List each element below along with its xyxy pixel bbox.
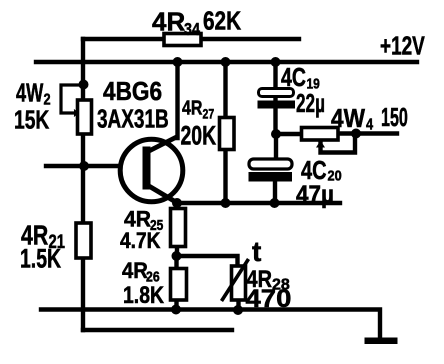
potentiometer W2 wiper bracket	[61, 85, 84, 117]
svg-text:1.5K: 1.5K	[20, 243, 61, 273]
svg-text:150: 150	[381, 102, 408, 132]
svg-text:62K: 62K	[203, 6, 241, 35]
svg-text:+12V: +12V	[380, 31, 426, 61]
thermistor R28 body	[232, 266, 246, 300]
resistor R25 4.7K	[171, 209, 186, 247]
junction dot R25-R26	[172, 251, 182, 261]
wire top R34 net	[83, 37, 299, 41]
junction dot C19-C20-W4	[271, 129, 281, 139]
svg-text:22µ: 22µ	[296, 88, 325, 118]
wire R25 column	[175, 203, 179, 256]
potentiometer W4 body 150	[302, 128, 339, 141]
svg-text:1.8K: 1.8K	[123, 281, 164, 308]
label R28 thermistor	[246, 236, 292, 313]
label C20	[296, 155, 342, 209]
potentiometer W4 wiper arrow	[316, 141, 325, 148]
junction dot R26 bottom	[171, 305, 181, 315]
junction dot base	[79, 161, 89, 171]
resistor R34 62K	[164, 34, 201, 46]
junction dot R28 bottom	[233, 305, 243, 315]
label W2	[14, 78, 51, 134]
wire ground rail	[41, 310, 380, 339]
label R27	[181, 97, 217, 150]
wire emitter rail	[177, 201, 340, 205]
svg-text:4: 4	[366, 116, 373, 134]
resistor R21 1.5K	[76, 223, 91, 258]
svg-text:4R: 4R	[124, 206, 151, 232]
wire C20 column	[275, 134, 276, 203]
svg-text:34: 34	[184, 20, 200, 40]
svg-text:4W: 4W	[331, 105, 365, 134]
svg-text:15K: 15K	[14, 105, 50, 135]
wire bottom left elbow	[83, 328, 232, 332]
junction dot rail-C19	[271, 57, 281, 67]
svg-text:4W: 4W	[16, 78, 44, 107]
svg-text:47µ: 47µ	[296, 181, 334, 209]
resistor R26 1.8K	[171, 269, 187, 301]
wire left column vertical	[81, 39, 85, 330]
junction dot emitter-C20	[270, 198, 280, 208]
svg-text:3AX31B: 3AX31B	[97, 104, 169, 134]
wire R26 column	[174, 256, 178, 309]
wire +12V rail	[36, 60, 417, 64]
label R25	[120, 206, 164, 253]
capacitor C19 22u top plate	[259, 89, 294, 97]
label R26	[122, 259, 164, 308]
label R34 value	[152, 6, 241, 39]
svg-text:4R: 4R	[122, 259, 148, 283]
svg-text:4.7K: 4.7K	[120, 229, 161, 254]
svg-text:20K: 20K	[181, 120, 217, 150]
wire base	[46, 164, 120, 168]
wire C19 column	[273, 62, 277, 134]
svg-text:4BG6: 4BG6	[103, 78, 162, 107]
wire collector riser	[175, 62, 179, 138]
wire R27 column	[223, 62, 227, 203]
svg-text:4R: 4R	[182, 97, 202, 119]
junction dot rail-riser	[173, 57, 183, 67]
svg-text:4C: 4C	[281, 62, 306, 91]
capacitor C20 47u top plate	[249, 159, 292, 169]
svg-text:4R: 4R	[152, 7, 185, 37]
label W4	[331, 102, 408, 134]
junction dot rail-R27	[221, 57, 231, 67]
svg-text:470: 470	[246, 284, 292, 313]
potentiometer W2 body 15K	[78, 100, 92, 134]
ground symbol	[365, 338, 398, 345]
label R21	[20, 220, 65, 274]
wire thermistor bottom	[236, 300, 240, 310]
wire W4 wiper loop	[321, 135, 356, 153]
capacitor C20 bottom plate	[249, 172, 293, 182]
junction dot emitter	[172, 198, 182, 208]
label transistor type	[97, 78, 169, 134]
wire R25-R26 junction to thermistor	[177, 256, 238, 266]
label C19	[281, 62, 325, 118]
thermistor R28 slash	[222, 259, 249, 301]
svg-text:t: t	[252, 236, 261, 267]
resistor R27 20K	[220, 118, 235, 150]
wire junction to W4	[276, 132, 303, 136]
wire W4 right to output	[338, 131, 397, 135]
junction dot emitter-R27	[221, 198, 231, 208]
junction dot W2 top	[79, 80, 89, 90]
capacitor C19 bottom plate	[258, 101, 296, 109]
junction dot W4 output	[351, 129, 361, 139]
transistor Q 4BG6 3AX31B	[120, 137, 183, 204]
